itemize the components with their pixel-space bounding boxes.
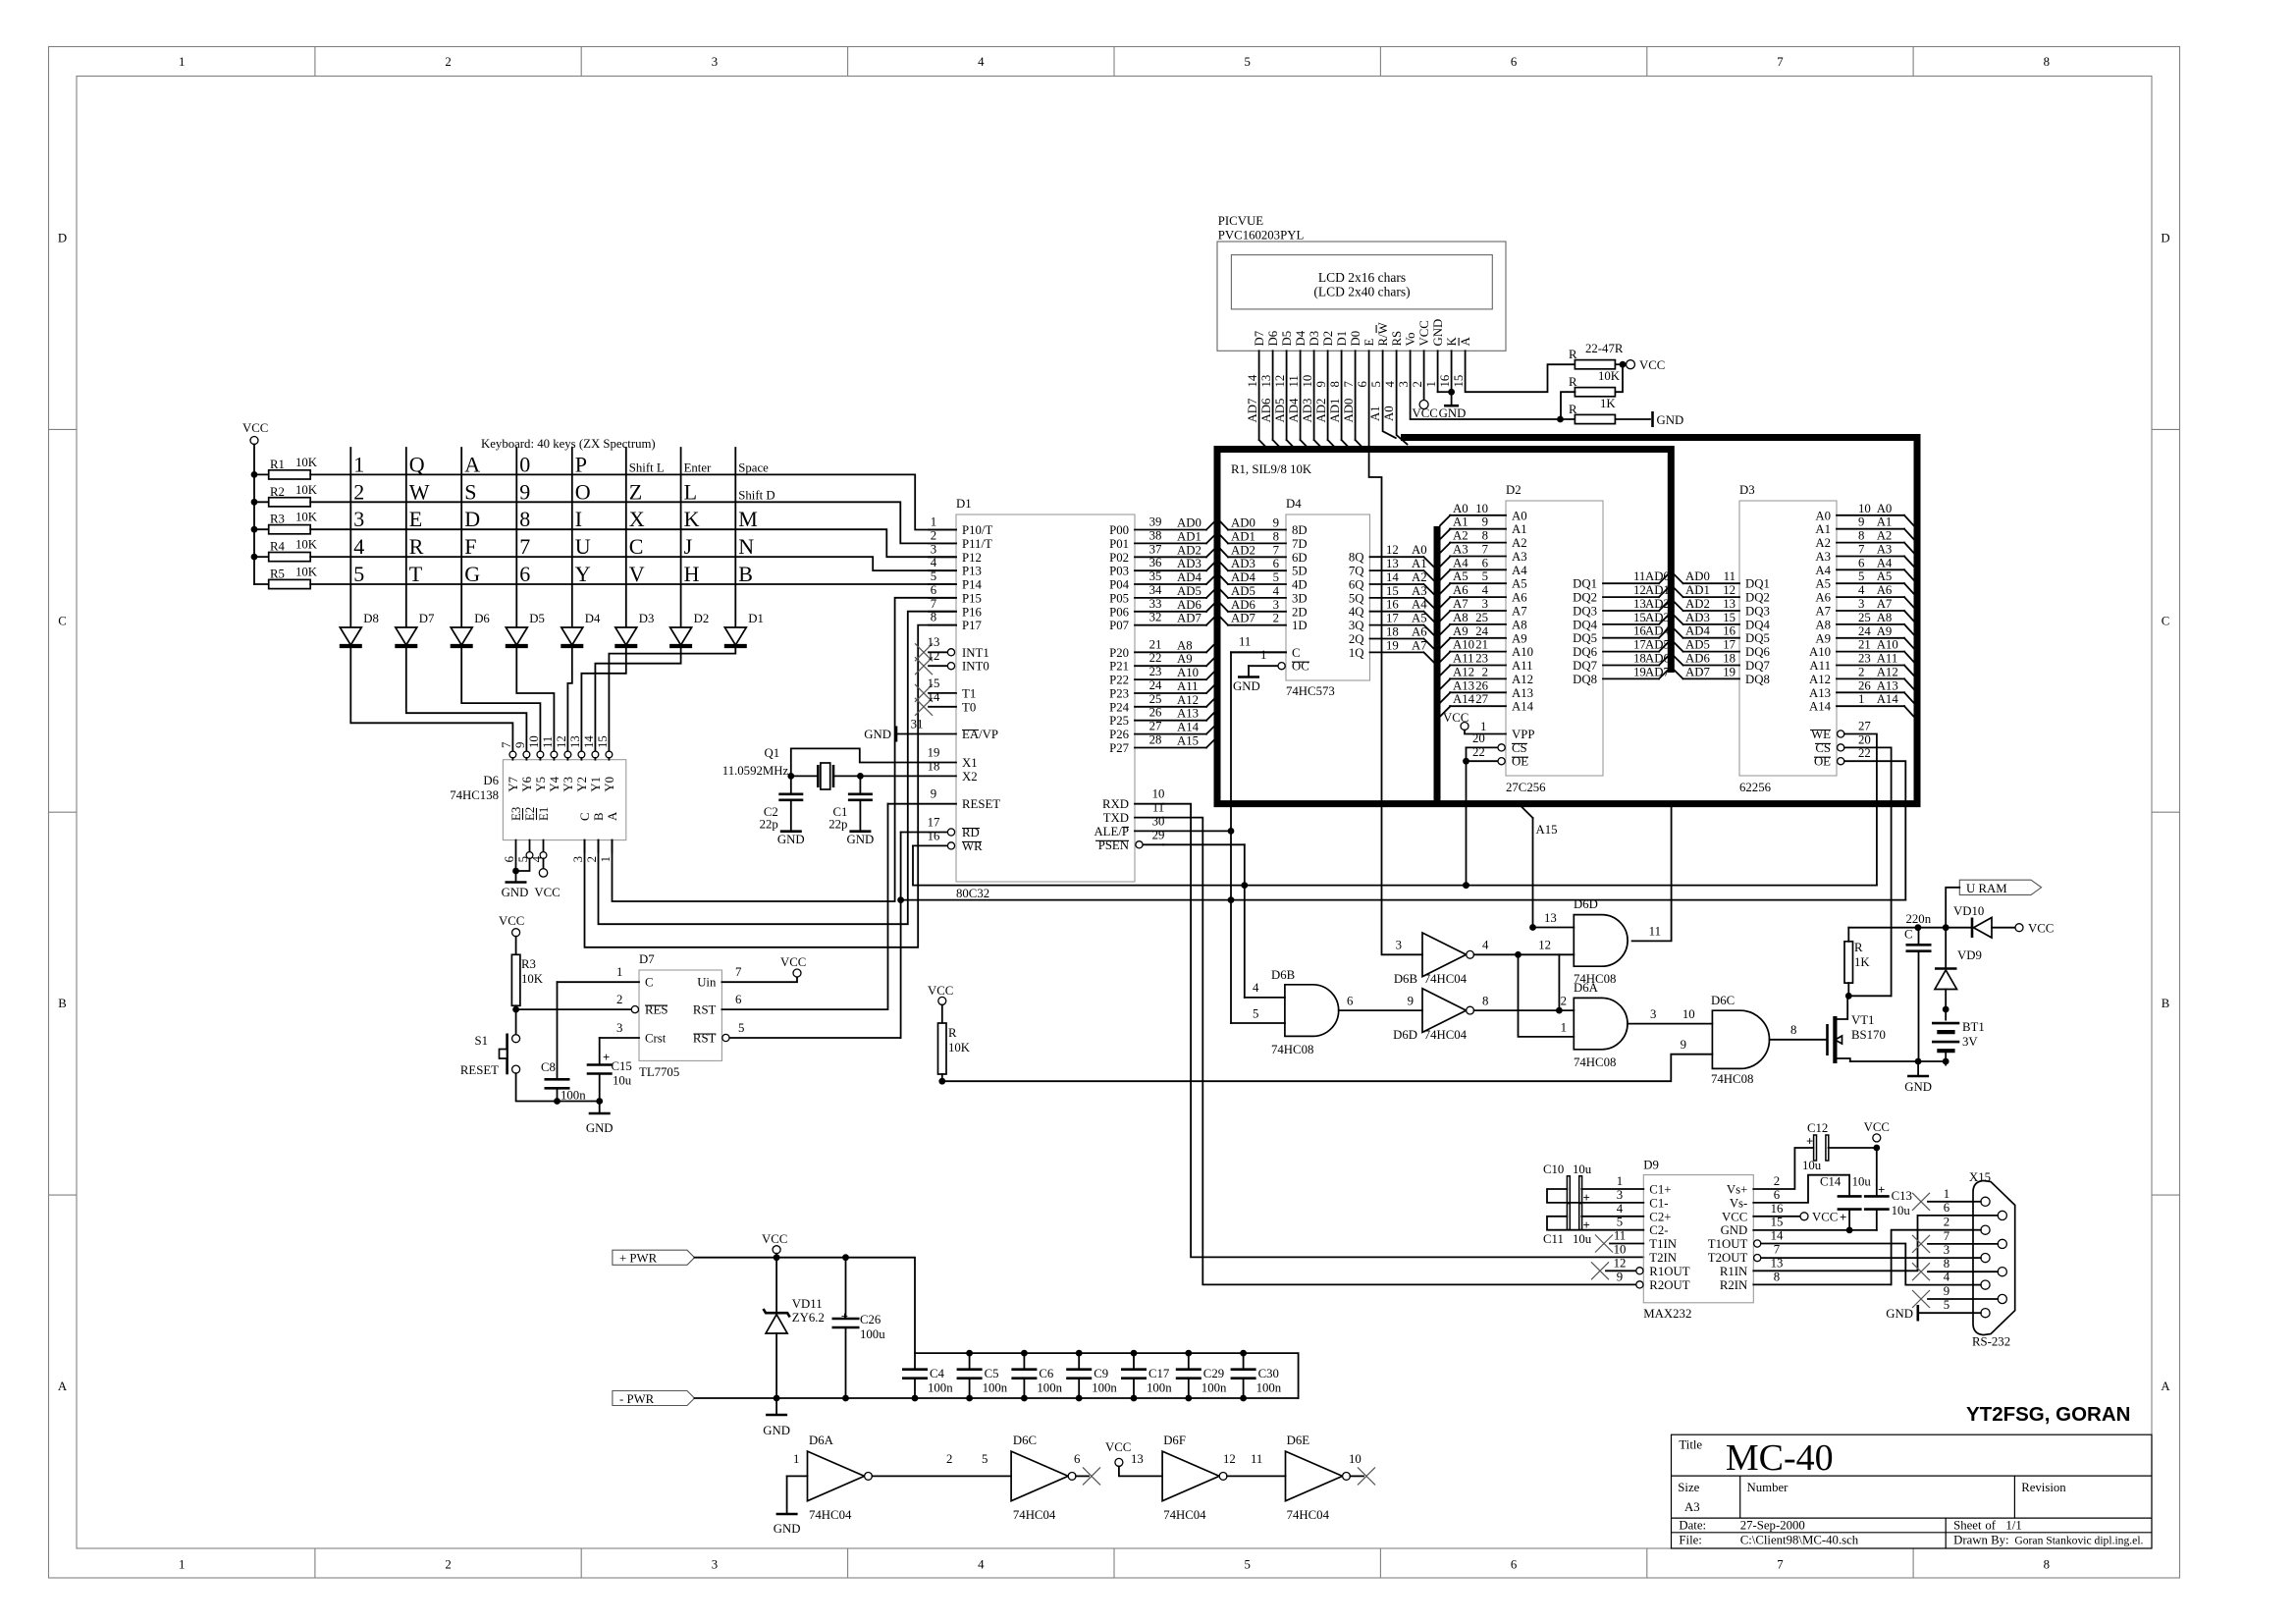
svg-text:7: 7 bbox=[519, 534, 530, 559]
wire gate D6C pin9 long line bbox=[942, 1055, 1713, 1082]
D1 pin 10 RXD bbox=[1102, 787, 1164, 812]
svg-text:VCC: VCC bbox=[2028, 922, 2054, 936]
D1 pin 13 INT1 bbox=[915, 635, 989, 661]
D3 data pins DQ1-DQ8 bbox=[1675, 569, 1771, 686]
svg-text:D1: D1 bbox=[956, 497, 972, 511]
svg-text:10: 10 bbox=[527, 735, 541, 748]
svg-text:74HC138: 74HC138 bbox=[450, 788, 499, 802]
svg-text:D5: D5 bbox=[529, 612, 545, 625]
wire D1 to decoder Y0 bbox=[609, 646, 735, 752]
svg-text:GND: GND bbox=[847, 833, 875, 846]
svg-text:8: 8 bbox=[1944, 1257, 1949, 1271]
svg-text:10K: 10K bbox=[948, 1041, 971, 1055]
svg-text:A15: A15 bbox=[1177, 734, 1199, 748]
svg-text:34: 34 bbox=[1149, 583, 1162, 597]
wire D6 to decoder Y5 bbox=[461, 646, 540, 752]
svg-text:K: K bbox=[684, 507, 700, 531]
svg-text:3: 3 bbox=[1858, 597, 1864, 611]
svg-text:AD6: AD6 bbox=[1685, 652, 1710, 666]
svg-text:3: 3 bbox=[1273, 598, 1279, 612]
svg-text:5: 5 bbox=[1273, 570, 1279, 584]
svg-text:D6: D6 bbox=[1266, 330, 1280, 346]
svg-text:18: 18 bbox=[1386, 625, 1399, 639]
svg-text:A3: A3 bbox=[1412, 584, 1427, 598]
A-bus segment at latch outputs bbox=[1434, 526, 1441, 804]
svg-text:A4: A4 bbox=[1512, 564, 1527, 577]
svg-text:AD3: AD3 bbox=[1301, 399, 1314, 423]
diode VD9 bbox=[1935, 928, 1982, 1020]
svg-text:A10: A10 bbox=[1877, 638, 1898, 652]
svg-text:AD2: AD2 bbox=[1685, 597, 1710, 611]
svg-text:8: 8 bbox=[1328, 381, 1342, 387]
capacitor C9 100n bbox=[1066, 1350, 1117, 1402]
svg-text:C6: C6 bbox=[1039, 1367, 1054, 1380]
svg-text:R5: R5 bbox=[270, 568, 285, 581]
svg-text:A6: A6 bbox=[1877, 583, 1893, 597]
svg-text:A3: A3 bbox=[1453, 543, 1468, 557]
svg-text:A6: A6 bbox=[1412, 625, 1427, 639]
author text YT2FSG GORAN bbox=[1966, 1403, 2130, 1426]
inverter D6A 74HC04 spare bbox=[787, 1434, 873, 1522]
svg-text:18: 18 bbox=[1633, 652, 1646, 666]
svg-text:AD5: AD5 bbox=[1645, 638, 1670, 652]
svg-text:15: 15 bbox=[1723, 611, 1735, 624]
svg-text:3: 3 bbox=[1617, 1188, 1623, 1202]
svg-text:8: 8 bbox=[1858, 529, 1864, 543]
svg-text:7: 7 bbox=[735, 965, 742, 979]
svg-text:B: B bbox=[2162, 997, 2170, 1010]
svg-text:C5: C5 bbox=[985, 1367, 999, 1380]
svg-text:A12: A12 bbox=[1453, 665, 1474, 678]
net flag U RAM bbox=[1959, 880, 2041, 895]
AND gate D6A 74HC08 bbox=[1561, 981, 1713, 1069]
wire D5 to decoder Y4 bbox=[516, 646, 554, 752]
svg-text:6: 6 bbox=[1511, 1558, 1518, 1572]
svg-text:22p: 22p bbox=[828, 818, 847, 832]
svg-text:Uin: Uin bbox=[697, 976, 717, 990]
svg-text:14: 14 bbox=[1386, 570, 1399, 584]
svg-text:1: 1 bbox=[793, 1452, 799, 1466]
svg-text:12: 12 bbox=[1723, 583, 1735, 597]
svg-text:5: 5 bbox=[738, 1021, 744, 1035]
svg-text:24: 24 bbox=[1149, 678, 1162, 692]
svg-text:10: 10 bbox=[1152, 787, 1165, 801]
svg-text:13: 13 bbox=[1544, 911, 1557, 925]
svg-text:D1: D1 bbox=[1335, 331, 1349, 347]
R1 SIL resistor network label bbox=[1231, 462, 1312, 476]
svg-text:A5: A5 bbox=[1877, 569, 1893, 583]
svg-text:P00: P00 bbox=[1109, 523, 1129, 537]
svg-text:14: 14 bbox=[928, 690, 940, 704]
wire key column 1 bbox=[349, 448, 351, 626]
svg-text:VCC: VCC bbox=[499, 914, 524, 928]
svg-text:25: 25 bbox=[1858, 611, 1871, 624]
svg-text:62256: 62256 bbox=[1739, 781, 1772, 794]
svg-text:P15: P15 bbox=[962, 591, 982, 605]
svg-text:Y0: Y0 bbox=[603, 777, 616, 792]
svg-text:A5: A5 bbox=[1453, 569, 1468, 583]
ground symbol D6A input bbox=[774, 1476, 801, 1536]
svg-text:D9: D9 bbox=[1643, 1158, 1659, 1171]
svg-text:GND: GND bbox=[864, 728, 891, 741]
svg-text:A14: A14 bbox=[1877, 692, 1899, 706]
svg-text:4: 4 bbox=[1482, 583, 1489, 597]
svg-text:Vo: Vo bbox=[1404, 333, 1417, 347]
svg-text:100n: 100n bbox=[1201, 1381, 1227, 1395]
D1 pin 30 ALE/P bbox=[1094, 814, 1164, 839]
svg-text:AD4: AD4 bbox=[1231, 570, 1255, 584]
svg-text:2: 2 bbox=[1482, 665, 1488, 678]
D1 pin 18 X2 bbox=[928, 759, 978, 784]
svg-text:DQ8: DQ8 bbox=[1573, 673, 1597, 686]
svg-text:8: 8 bbox=[2044, 55, 2050, 69]
svg-text:P04: P04 bbox=[1109, 578, 1130, 592]
svg-text:Y: Y bbox=[575, 562, 591, 586]
svg-text:A10: A10 bbox=[1453, 638, 1474, 652]
VCC power input bbox=[762, 1232, 787, 1258]
svg-text:P24: P24 bbox=[1109, 700, 1130, 714]
svg-text:A2: A2 bbox=[1412, 570, 1427, 584]
ground symbol X15 pin5 bbox=[1886, 1305, 1972, 1322]
D7 pin 6 RST to D1 RESET bbox=[693, 804, 888, 1017]
svg-text:15: 15 bbox=[1452, 375, 1466, 388]
svg-text:27: 27 bbox=[1475, 692, 1488, 706]
svg-text:18: 18 bbox=[1723, 652, 1735, 666]
svg-text:VPP: VPP bbox=[1512, 728, 1534, 741]
capacitor C6 100n bbox=[1011, 1350, 1062, 1402]
wire A15 from bus to gate D6D bbox=[1522, 807, 1558, 931]
D1 pin 12 INT0 bbox=[915, 649, 989, 675]
svg-text:RXD: RXD bbox=[1102, 797, 1129, 811]
svg-text:C:\Client98\MC-40.sch: C:\Client98\MC-40.sch bbox=[1740, 1534, 1859, 1547]
svg-text:R: R bbox=[409, 534, 424, 559]
D9 left pin labels bbox=[1614, 1174, 1690, 1292]
svg-text:C: C bbox=[1292, 646, 1301, 660]
svg-text:4: 4 bbox=[1617, 1202, 1624, 1216]
svg-text:3: 3 bbox=[712, 55, 718, 69]
svg-text:Y3: Y3 bbox=[561, 777, 575, 792]
svg-text:P16: P16 bbox=[962, 605, 983, 619]
svg-text:AD4: AD4 bbox=[1645, 624, 1670, 638]
switch S1 RESET bbox=[460, 1034, 520, 1078]
svg-text:C9: C9 bbox=[1094, 1367, 1108, 1380]
svg-text:6: 6 bbox=[519, 562, 530, 586]
LCD GND and K pins to ground bbox=[1438, 351, 1467, 420]
svg-text:A1: A1 bbox=[1412, 557, 1427, 570]
svg-text:12: 12 bbox=[1614, 1256, 1627, 1270]
svg-text:D6F: D6F bbox=[1163, 1434, 1186, 1447]
svg-text:R: R bbox=[1569, 348, 1577, 361]
battery BT1 3V bbox=[1932, 1020, 1985, 1065]
svg-text:AD7: AD7 bbox=[1685, 665, 1710, 678]
svg-text:4: 4 bbox=[1253, 981, 1259, 995]
svg-text:VCC: VCC bbox=[242, 421, 268, 435]
svg-text:AD7: AD7 bbox=[1645, 665, 1670, 678]
svg-text:T0: T0 bbox=[962, 700, 976, 714]
svg-text:D: D bbox=[464, 507, 480, 531]
svg-text:6: 6 bbox=[1074, 1452, 1081, 1466]
svg-text:U RAM: U RAM bbox=[1966, 882, 2007, 895]
svg-text:MC-40: MC-40 bbox=[1726, 1437, 1834, 1479]
capacitor C15 10u bbox=[587, 1038, 632, 1102]
svg-text:VCC: VCC bbox=[1812, 1210, 1838, 1223]
wire memory read line bbox=[901, 896, 1906, 903]
svg-text:Y1: Y1 bbox=[589, 777, 603, 792]
svg-text:4D: 4D bbox=[1292, 578, 1308, 592]
svg-text:A5: A5 bbox=[1512, 577, 1527, 591]
svg-text:74HC08: 74HC08 bbox=[1271, 1043, 1313, 1056]
svg-text:T1: T1 bbox=[962, 686, 976, 700]
svg-text:P: P bbox=[575, 452, 587, 476]
svg-text:D4: D4 bbox=[1294, 330, 1308, 346]
svg-text:GND: GND bbox=[1657, 413, 1684, 427]
svg-text:H: H bbox=[684, 562, 700, 586]
svg-text:C8: C8 bbox=[541, 1060, 556, 1074]
svg-text:DQ4: DQ4 bbox=[1573, 618, 1597, 631]
svg-text:T: T bbox=[409, 562, 423, 586]
svg-text:A3: A3 bbox=[1684, 1500, 1700, 1514]
LCD data wires AD7-AD0 to bus bbox=[1246, 351, 1364, 449]
svg-text:AD6: AD6 bbox=[1177, 598, 1201, 612]
svg-text:A1: A1 bbox=[1512, 522, 1527, 536]
svg-text:A9: A9 bbox=[1877, 624, 1893, 638]
svg-text:+ PWR: + PWR bbox=[619, 1252, 658, 1266]
svg-text:ZY6.2: ZY6.2 bbox=[792, 1311, 825, 1325]
D7 pin 3 Crst bbox=[600, 1021, 667, 1046]
svg-text:C1+: C1+ bbox=[1649, 1183, 1671, 1197]
D2 CS pin 20 bbox=[1467, 731, 1528, 755]
svg-text:D6D: D6D bbox=[1574, 897, 1598, 911]
LCD A backlight wire bbox=[1466, 351, 1575, 392]
svg-text:9: 9 bbox=[1617, 1270, 1623, 1283]
svg-text:A14: A14 bbox=[1809, 700, 1832, 714]
svg-text:11: 11 bbox=[1239, 634, 1251, 648]
D3 OE pin 22 bbox=[1814, 746, 1871, 769]
svg-text:P10/T: P10/T bbox=[962, 523, 992, 537]
svg-text:AD1: AD1 bbox=[1177, 529, 1201, 543]
D3 WE pin 27 bbox=[1810, 720, 1871, 742]
svg-text:4Q: 4Q bbox=[1349, 605, 1364, 619]
svg-text:File:: File: bbox=[1679, 1534, 1701, 1547]
svg-text:17: 17 bbox=[928, 816, 940, 830]
svg-text:P13: P13 bbox=[962, 565, 982, 578]
LCD Vo wire to contrast divider bbox=[1411, 351, 1575, 422]
D6 bottom pins C B A bbox=[571, 811, 619, 862]
wire keyboard row 5 to P14 bbox=[310, 583, 956, 585]
diode D5 bbox=[506, 612, 545, 646]
svg-text:6: 6 bbox=[503, 855, 516, 862]
svg-text:A7: A7 bbox=[1877, 597, 1893, 611]
svg-text:VCC: VCC bbox=[762, 1232, 787, 1246]
D4 outputs 8Q-1Q bbox=[1349, 543, 1434, 663]
svg-text:AD2: AD2 bbox=[1231, 543, 1255, 557]
D1 pin 31 EA/VP tied to GND bbox=[864, 718, 998, 742]
wire PSEN net bbox=[1163, 844, 1245, 998]
svg-text:100n: 100n bbox=[928, 1381, 953, 1395]
svg-text:D6D: D6D bbox=[1393, 1028, 1417, 1042]
wire E2 to GND join bbox=[512, 858, 529, 874]
svg-text:28: 28 bbox=[1149, 733, 1162, 747]
svg-text:Number: Number bbox=[1747, 1481, 1789, 1494]
svg-text:A0: A0 bbox=[1382, 406, 1396, 421]
diode D4 bbox=[561, 612, 601, 646]
svg-text:BT1: BT1 bbox=[1962, 1020, 1985, 1034]
wire key column 3 bbox=[460, 448, 462, 626]
svg-text:DQ3: DQ3 bbox=[1745, 605, 1770, 619]
svg-text:AD3: AD3 bbox=[1685, 611, 1710, 624]
svg-text:A13: A13 bbox=[1453, 678, 1474, 692]
svg-text:1: 1 bbox=[179, 55, 185, 69]
svg-text:1: 1 bbox=[1858, 692, 1864, 706]
svg-text:D2: D2 bbox=[694, 612, 710, 625]
net flag + PWR bbox=[613, 1250, 695, 1265]
svg-text:7: 7 bbox=[1482, 543, 1489, 557]
wire U RAM to switch node bbox=[1946, 888, 1959, 928]
svg-text:32: 32 bbox=[1149, 611, 1162, 624]
svg-text:10: 10 bbox=[1682, 1007, 1695, 1021]
address data bus thick lines bbox=[1217, 438, 1917, 804]
svg-text:INT0: INT0 bbox=[962, 660, 989, 674]
svg-text:RS-232: RS-232 bbox=[1972, 1335, 2010, 1349]
keyboard title text bbox=[481, 437, 656, 451]
svg-text:1: 1 bbox=[1561, 1020, 1567, 1034]
svg-text:A6: A6 bbox=[1815, 591, 1831, 605]
svg-text:D2: D2 bbox=[1506, 483, 1522, 497]
svg-text:1: 1 bbox=[1424, 381, 1438, 387]
svg-text:R3: R3 bbox=[521, 957, 536, 971]
ground symbol U RAM bbox=[1904, 1061, 1932, 1094]
svg-text:D6: D6 bbox=[474, 612, 490, 625]
svg-text:8: 8 bbox=[1482, 529, 1488, 543]
svg-text:5: 5 bbox=[1244, 1558, 1250, 1572]
svg-text:D3: D3 bbox=[639, 612, 655, 625]
svg-text:D6C: D6C bbox=[1013, 1434, 1037, 1447]
svg-text:3: 3 bbox=[616, 1021, 622, 1035]
svg-text:16: 16 bbox=[1771, 1202, 1784, 1216]
svg-text:3: 3 bbox=[571, 856, 585, 862]
resistor R 1K contrast lower bbox=[1569, 397, 1683, 427]
svg-text:8: 8 bbox=[1482, 995, 1488, 1008]
svg-text:A9: A9 bbox=[1512, 631, 1527, 645]
svg-text:15: 15 bbox=[1771, 1216, 1784, 1229]
svg-text:11: 11 bbox=[1287, 375, 1301, 387]
svg-text:A1: A1 bbox=[1877, 515, 1893, 529]
svg-text:TL7705: TL7705 bbox=[639, 1065, 679, 1079]
svg-text:14: 14 bbox=[1246, 374, 1259, 387]
inverter D6C 74HC04 spare bbox=[1011, 1434, 1100, 1522]
svg-text:- PWR: - PWR bbox=[619, 1392, 655, 1406]
svg-text:DQ2: DQ2 bbox=[1745, 591, 1770, 605]
D9 T1IN pin nc bbox=[1595, 1235, 1643, 1253]
svg-text:27C256: 27C256 bbox=[1506, 781, 1546, 794]
svg-text:27: 27 bbox=[1149, 720, 1162, 733]
svg-text:38: 38 bbox=[1149, 528, 1162, 542]
svg-text:+: + bbox=[1583, 1218, 1590, 1232]
svg-text:17: 17 bbox=[1723, 638, 1735, 652]
svg-text:23: 23 bbox=[1475, 652, 1488, 666]
svg-text:R2OUT: R2OUT bbox=[1649, 1278, 1689, 1292]
svg-text:C: C bbox=[58, 614, 67, 627]
svg-text:5D: 5D bbox=[1292, 565, 1308, 578]
LCD VCC pin connection bbox=[1413, 351, 1438, 420]
svg-text:22: 22 bbox=[1472, 745, 1485, 759]
svg-text:R1, SIL9/8 10K: R1, SIL9/8 10K bbox=[1231, 462, 1312, 476]
svg-text:12: 12 bbox=[928, 649, 940, 663]
svg-text:A7: A7 bbox=[1412, 638, 1427, 652]
svg-text:Size: Size bbox=[1678, 1481, 1699, 1494]
D9 GND pin 15 wire bbox=[1753, 1227, 1877, 1234]
svg-text:2: 2 bbox=[1411, 381, 1424, 387]
net flag - PWR bbox=[613, 1391, 695, 1406]
svg-text:5: 5 bbox=[353, 562, 364, 586]
svg-text:R: R bbox=[1569, 375, 1577, 389]
svg-text:Y7: Y7 bbox=[507, 776, 520, 791]
D1 port0 pins AD0-AD7 bbox=[1109, 515, 1215, 633]
svg-text:D7: D7 bbox=[1253, 330, 1266, 346]
wire D6 A to P15 bbox=[613, 598, 957, 901]
svg-text:4: 4 bbox=[1944, 1271, 1950, 1284]
latch D4 74HC573 bbox=[1286, 497, 1370, 698]
wire A15 line to D6D pin13 bbox=[1533, 911, 1575, 928]
svg-text:Y4: Y4 bbox=[548, 776, 561, 791]
svg-text:I: I bbox=[575, 507, 582, 531]
svg-text:A11: A11 bbox=[1512, 659, 1533, 673]
svg-text:VCC: VCC bbox=[1417, 320, 1431, 346]
svg-text:Sheet: Sheet bbox=[1953, 1519, 1982, 1533]
VCC for D6 E1 bbox=[534, 858, 560, 899]
svg-text:Shift D: Shift D bbox=[738, 488, 774, 502]
wire TXD to MAX232 bbox=[1163, 818, 1636, 1285]
wire drain node to CS line bbox=[1848, 995, 1891, 997]
svg-text:GND: GND bbox=[1431, 319, 1445, 347]
ground symbol D6 E3/E2 bbox=[502, 871, 529, 899]
svg-text:9: 9 bbox=[1681, 1038, 1686, 1052]
svg-text:A: A bbox=[2161, 1380, 2170, 1393]
svg-text:AD1: AD1 bbox=[1685, 583, 1710, 597]
ground symbol D4 OC bbox=[1233, 666, 1260, 693]
svg-text:3: 3 bbox=[1482, 597, 1488, 611]
svg-text:10: 10 bbox=[1475, 502, 1488, 515]
wire key column 6 bbox=[625, 448, 627, 626]
VCC for reset circuit bbox=[499, 914, 524, 954]
key matrix labels bbox=[353, 452, 774, 586]
svg-text:3Q: 3Q bbox=[1349, 619, 1364, 632]
svg-text:18: 18 bbox=[928, 759, 940, 773]
svg-text:AD1: AD1 bbox=[1231, 529, 1255, 543]
svg-text:10: 10 bbox=[1301, 375, 1314, 388]
svg-text:O: O bbox=[575, 479, 591, 504]
svg-text:VCC: VCC bbox=[1639, 358, 1665, 372]
zone row letters bbox=[58, 231, 2171, 1393]
svg-text:C: C bbox=[629, 534, 644, 559]
D1 port2 pins A8-A15 bbox=[1109, 637, 1215, 755]
svg-text:8: 8 bbox=[2044, 1558, 2050, 1572]
AND gate D6C 74HC08 bbox=[1681, 994, 1828, 1086]
svg-text:AD6: AD6 bbox=[1645, 652, 1670, 666]
svg-text:VCC: VCC bbox=[1105, 1440, 1131, 1454]
svg-text:C: C bbox=[2162, 614, 2170, 627]
svg-text:VD9: VD9 bbox=[1957, 948, 1982, 962]
svg-text:15: 15 bbox=[928, 676, 940, 690]
X15 pin stubs and numbers bbox=[1912, 1187, 1972, 1312]
svg-text:1: 1 bbox=[179, 1558, 185, 1572]
svg-text:E: E bbox=[1362, 339, 1376, 347]
svg-text:AD7: AD7 bbox=[1177, 612, 1201, 625]
svg-text:19: 19 bbox=[1386, 638, 1399, 652]
svg-text:30: 30 bbox=[1152, 814, 1165, 828]
svg-text:P20: P20 bbox=[1109, 646, 1129, 660]
driver D9 MAX232 bbox=[1643, 1158, 1753, 1321]
